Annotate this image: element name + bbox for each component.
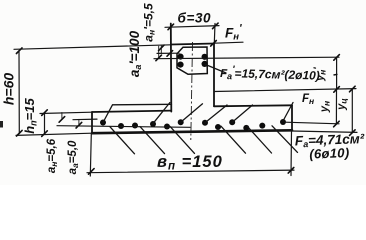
flange (slab) outline (92, 111, 171, 112)
leader web lower dot to Fa' text (206, 65, 227, 74)
a-chains near flange left (73, 118, 97, 121)
b=30 dim (165, 26, 219, 28)
h_p=15 chain (44, 113, 46, 134)
svg-text:aн=5,6: aн=5,6 (46, 138, 59, 173)
svg-text:hп=15: hп=15 (22, 97, 39, 133)
svg-text:aа'=100: aа'=100 (127, 30, 143, 77)
leaders above flange (103, 65, 298, 154)
svg-text:вп =150: вп =150 (157, 153, 223, 173)
web (rib) outline (171, 44, 214, 45)
svg-text:aн'=5,5: aн'=5,5 (142, 3, 157, 42)
ext flange bottom right (292, 131, 357, 132)
prime dash after (2ø10) (334, 73, 338, 76)
stirrup in web (177, 47, 207, 74)
rebar dots: flange (100, 120, 106, 126)
h=60 chain (18, 51, 20, 134)
y_n' chain (336, 57, 338, 89)
y_c outer chain (351, 89, 353, 133)
rebar dots: web (100, 54, 286, 131)
right side: line y90 (214, 89, 356, 92)
centerline of web (dash-dot) (191, 42, 193, 140)
dimension and extension lines (14, 24, 357, 177)
leaders below flange (110, 127, 135, 154)
svg-text:б=30: б=30 (178, 11, 212, 26)
top extension line (h=60 top) (14, 45, 171, 50)
y_n chain (335, 89, 337, 124)
small ext lines left of web top (157, 52, 179, 54)
svg-text:(6ø10): (6ø10) (309, 145, 350, 161)
dimension slash ticks (16, 23, 355, 174)
svg-text:aа=5,0: aа=5,0 (67, 140, 80, 174)
v_p=150 dim (87, 170, 294, 173)
ext from rightmost flange dot (285, 122, 339, 124)
F_n' underline leader (215, 42, 244, 43)
svg-text:h=60: h=60 (1, 73, 17, 106)
scan artifact left edge (0, 121, 3, 128)
